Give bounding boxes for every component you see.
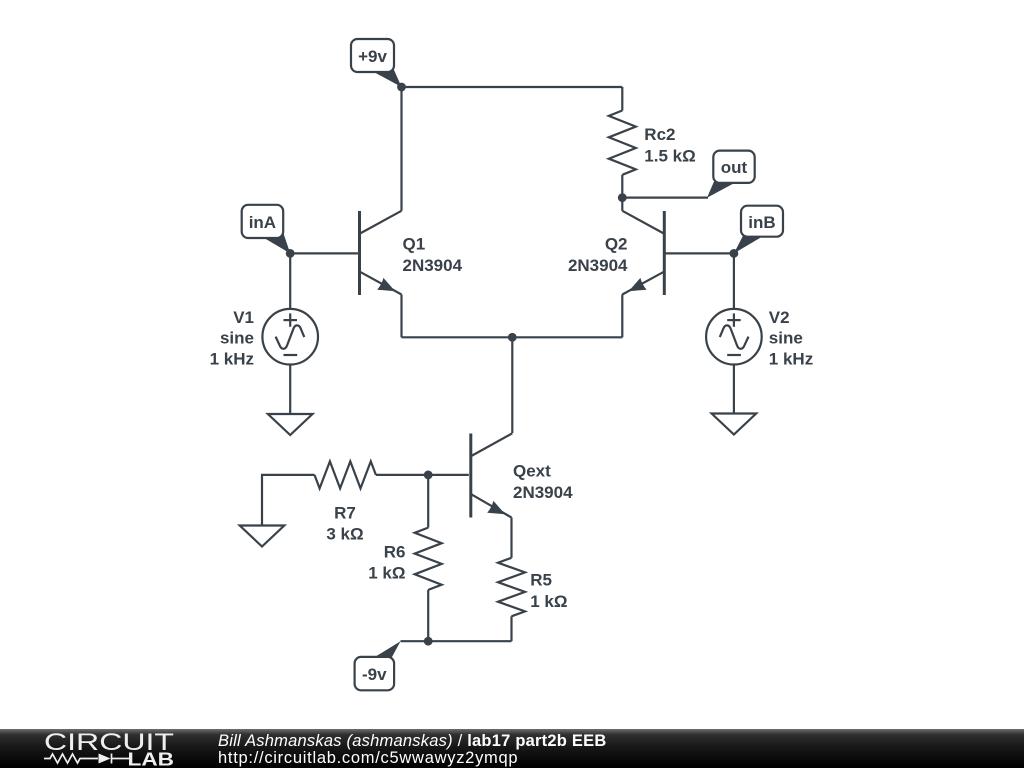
resistor R7 — [315, 461, 376, 488]
node Qext base junction — [424, 471, 433, 480]
wire R5 bottom — [510, 616, 512, 641]
source V1 — [262, 309, 318, 365]
svg-text:LAB: LAB — [128, 748, 175, 768]
svg-text:sine: sine — [220, 329, 254, 348]
wire Q2 base — [666, 252, 734, 254]
svg-text:R6: R6 — [384, 542, 406, 561]
wire Q1 collector — [400, 87, 402, 211]
wire R7 left with ground corner — [262, 475, 315, 526]
resistor R5 — [498, 558, 525, 617]
source V2 — [706, 309, 762, 365]
svg-text:+9v: +9v — [358, 47, 387, 66]
svg-text:1.5 kΩ: 1.5 kΩ — [644, 146, 695, 165]
node bottom junction — [424, 637, 433, 646]
net label -9v — [355, 641, 401, 690]
node +9v — [397, 83, 406, 92]
net label inA — [242, 205, 291, 254]
resistor Rc2 — [609, 111, 636, 175]
wire Q1 emitter — [400, 295, 402, 338]
ground V1 — [268, 414, 313, 435]
wire emitter rail — [402, 336, 623, 338]
transistor Q2 — [622, 211, 664, 295]
wire R6 bottom — [427, 590, 429, 641]
svg-text:1 kHz: 1 kHz — [210, 349, 254, 368]
node tail junction — [508, 333, 517, 342]
svg-text:2N3904: 2N3904 — [403, 256, 463, 275]
svg-text:3 kΩ: 3 kΩ — [326, 525, 363, 544]
footer bar — [0, 729, 1024, 768]
svg-text:sine: sine — [769, 329, 803, 348]
wire Q2 emitter — [621, 295, 623, 338]
node out — [618, 193, 627, 202]
wire inA to V1 — [289, 253, 291, 309]
svg-text:Q2: Q2 — [605, 235, 628, 254]
ground R7 — [240, 526, 285, 547]
net label out — [707, 151, 755, 198]
svg-text:1 kΩ: 1 kΩ — [530, 592, 567, 611]
svg-text:R7: R7 — [334, 503, 356, 522]
svg-text:Rc2: Rc2 — [644, 125, 675, 144]
wire Qext emitter to R5 — [510, 518, 512, 558]
svg-text:1 kΩ: 1 kΩ — [368, 564, 405, 583]
wire Rc2 bottom — [621, 175, 623, 198]
net label inB — [734, 206, 783, 254]
svg-text:2N3904: 2N3904 — [568, 256, 628, 275]
wire V1 to ground — [289, 365, 291, 415]
svg-text:-9v: -9v — [362, 665, 387, 684]
node inA — [286, 249, 295, 258]
transistor Qext — [471, 433, 513, 517]
wire top rail — [402, 86, 623, 88]
ground V2 — [712, 414, 757, 435]
wire R7 to Qext base — [376, 474, 469, 476]
svg-text:2N3904: 2N3904 — [513, 483, 573, 502]
wire R6 top — [427, 475, 429, 528]
wire Q1 base — [290, 252, 358, 254]
footer url text — [218, 749, 518, 768]
svg-text:Qext: Qext — [513, 462, 551, 481]
wire Rc2 top — [621, 87, 623, 111]
svg-text:Q1: Q1 — [403, 235, 426, 254]
svg-text:R5: R5 — [530, 571, 552, 590]
wire V2 to ground — [733, 365, 735, 414]
svg-text:inB: inB — [748, 213, 775, 232]
wire bottom rail — [401, 640, 512, 642]
wire out stub — [622, 197, 708, 199]
net label +9v — [351, 39, 402, 87]
transistor Q1 — [360, 211, 402, 295]
logo CIRCUIT LAB — [0, 729, 200, 768]
svg-text:V2: V2 — [769, 308, 790, 327]
svg-text:inA: inA — [249, 213, 276, 232]
node inB — [730, 249, 739, 258]
svg-text:V1: V1 — [233, 308, 254, 327]
footer title text — [218, 732, 606, 751]
wire tail down to Qext — [511, 337, 513, 433]
wire Q2 collector — [621, 198, 623, 211]
wire inB to V2 — [733, 253, 735, 309]
svg-text:1 kHz: 1 kHz — [769, 349, 813, 368]
resistor R6 — [415, 528, 442, 590]
svg-text:out: out — [721, 158, 748, 177]
